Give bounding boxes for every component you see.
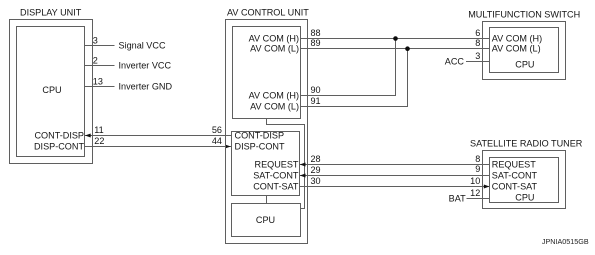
svg-text:12: 12 bbox=[470, 188, 480, 198]
arrow into AV REQUEST bbox=[300, 163, 306, 167]
svg-text:22: 22 bbox=[94, 136, 104, 146]
wire CONT-DISP (AV 56 to display 11) bbox=[85, 135, 232, 137]
wire CONT-SAT AV30 to tuner10 bbox=[300, 186, 490, 188]
svg-text:CPU: CPU bbox=[256, 215, 275, 225]
wire Inverter GND bbox=[85, 86, 115, 88]
svg-text:CPU: CPU bbox=[515, 60, 534, 70]
svg-text:91: 91 bbox=[311, 96, 321, 106]
arrow into AV SAT-CONT bbox=[300, 174, 306, 178]
svg-text:CONT-DISP: CONT-DISP bbox=[235, 131, 285, 141]
connector box2 to AV CPU bbox=[266, 196, 268, 204]
AV control unit outer box bbox=[226, 20, 308, 244]
display unit CPU box bbox=[17, 27, 85, 157]
svg-text:CPU: CPU bbox=[42, 85, 61, 95]
svg-text:BAT: BAT bbox=[449, 194, 466, 204]
svg-text:CONT-DISP: CONT-DISP bbox=[34, 131, 84, 141]
svg-text:11: 11 bbox=[94, 125, 103, 135]
wire AV COM (L) 89 to switch 8 bbox=[301, 48, 490, 50]
wire BAT bbox=[467, 198, 490, 200]
svg-text:AV CONTROL UNIT: AV CONTROL UNIT bbox=[227, 8, 309, 18]
wire REQUEST tuner8 to AV28 bbox=[300, 164, 490, 166]
multifunction switch inner box bbox=[490, 28, 559, 73]
junction dot H bbox=[393, 36, 398, 41]
svg-text:REQUEST: REQUEST bbox=[492, 160, 536, 170]
svg-text:JPNIA0515GB: JPNIA0515GB bbox=[542, 237, 589, 246]
tuner inner box bbox=[490, 158, 559, 203]
AV comm box 2 bbox=[232, 132, 300, 196]
svg-text:8: 8 bbox=[475, 154, 480, 164]
wire AV COM (L) 91 bbox=[301, 49, 408, 107]
display unit outer box bbox=[10, 20, 93, 164]
svg-text:CPU: CPU bbox=[515, 193, 534, 203]
AV COM interface box bbox=[233, 27, 301, 119]
svg-text:ACC: ACC bbox=[445, 57, 465, 67]
svg-text:3: 3 bbox=[475, 51, 480, 61]
svg-text:AV COM (L): AV COM (L) bbox=[250, 44, 299, 54]
svg-text:Inverter VCC: Inverter VCC bbox=[119, 61, 172, 71]
svg-text:56: 56 bbox=[212, 125, 222, 135]
arrow into display CONT-DISP bbox=[85, 134, 91, 138]
svg-text:90: 90 bbox=[311, 85, 321, 95]
wire SAT-CONT tuner9 to AV29 bbox=[300, 175, 490, 177]
AV CPU box bbox=[232, 204, 301, 237]
arrow into AV DISP-CONT bbox=[225, 145, 231, 149]
svg-text:3: 3 bbox=[93, 35, 98, 45]
svg-text:SATELLITE RADIO TUNER: SATELLITE RADIO TUNER bbox=[470, 139, 583, 149]
svg-text:CONT-SAT: CONT-SAT bbox=[492, 182, 538, 192]
svg-text:6: 6 bbox=[475, 28, 480, 38]
svg-text:CONT-SAT: CONT-SAT bbox=[253, 182, 299, 192]
svg-text:AV COM (H): AV COM (H) bbox=[492, 34, 542, 44]
svg-text:DISP-CONT: DISP-CONT bbox=[235, 142, 285, 152]
svg-text:MULTIFUNCTION SWITCH: MULTIFUNCTION SWITCH bbox=[468, 10, 580, 20]
svg-text:89: 89 bbox=[311, 38, 321, 48]
svg-text:13: 13 bbox=[93, 76, 103, 86]
arrow into tuner CONT-SAT bbox=[484, 185, 490, 189]
svg-text:AV COM (H): AV COM (H) bbox=[249, 91, 299, 101]
svg-text:29: 29 bbox=[311, 165, 321, 175]
svg-text:9: 9 bbox=[475, 164, 480, 174]
svg-text:AV COM (H): AV COM (H) bbox=[249, 34, 299, 44]
svg-text:Signal VCC: Signal VCC bbox=[119, 41, 166, 51]
multifunction switch outer box bbox=[483, 22, 566, 80]
wire Signal VCC bbox=[85, 45, 115, 47]
svg-text:REQUEST: REQUEST bbox=[255, 160, 299, 170]
svg-text:28: 28 bbox=[311, 154, 321, 164]
svg-text:SAT-CONT: SAT-CONT bbox=[492, 171, 538, 181]
svg-text:SAT-CONT: SAT-CONT bbox=[253, 171, 299, 181]
connector AV COM box to CPU bbox=[267, 119, 305, 209]
tuner outer box bbox=[483, 151, 566, 209]
svg-text:30: 30 bbox=[311, 176, 321, 186]
svg-text:DISPLAY UNIT: DISPLAY UNIT bbox=[20, 8, 82, 18]
svg-text:DISP-CONT: DISP-CONT bbox=[34, 142, 84, 152]
wire AV COM (H) 88 to switch 6 bbox=[301, 38, 490, 40]
svg-text:88: 88 bbox=[311, 28, 321, 38]
svg-text:2: 2 bbox=[93, 55, 98, 65]
wire DISP-CONT (display 22 to AV 44) bbox=[85, 146, 232, 148]
svg-text:8: 8 bbox=[475, 38, 480, 48]
wire AV COM (H) 90 bbox=[301, 39, 396, 96]
svg-text:Inverter GND: Inverter GND bbox=[119, 82, 173, 92]
junction dot L bbox=[405, 46, 410, 51]
svg-text:10: 10 bbox=[470, 176, 480, 186]
svg-text:44: 44 bbox=[212, 136, 222, 146]
wire ACC bbox=[466, 61, 490, 63]
svg-text:AV COM (L): AV COM (L) bbox=[492, 44, 541, 54]
wire Inverter VCC bbox=[85, 65, 115, 67]
svg-text:AV COM (L): AV COM (L) bbox=[250, 102, 299, 112]
